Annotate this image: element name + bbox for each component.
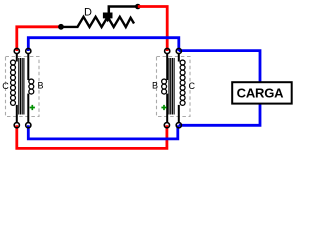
terminal T1 pin 3 [14,123,19,128]
terminal T1 pin 1 [14,48,19,53]
wire red primary top-left [17,27,61,51]
svg-text:C: C [189,81,196,91]
transformer T1 core [19,58,24,115]
transformer T2 winding B lead top [166,53,168,80]
wire blue secondary top bus [28,38,179,51]
wire red from wiper node to T2 [138,7,167,52]
node junction dot B [135,4,141,10]
transformer T2 core [169,58,174,115]
svg-text:D: D [84,6,92,18]
transformer T2 winding C lead top [178,53,180,61]
wire red bottom primary return [17,125,167,148]
terminal T1 pin 4 [26,123,31,128]
transformer T1 winding C lead top [16,53,18,61]
transformer T1 polarity plus mark [30,105,35,110]
terminal T2 pin 2 [176,48,181,53]
transformer T2 winding B coil [162,79,167,94]
transformer T2 winding B lead bottom [166,94,168,123]
wire blue to load CARGA top [179,51,260,82]
transformer T1 winding B lead bottom [27,94,29,123]
transformer T1 boundary dashed box [6,57,40,117]
svg-text:CARGA: CARGA [237,85,284,100]
transformer T2 winding C coil [180,60,185,105]
wiper lead wire [109,7,138,14]
terminal T2 pin 4 [176,123,181,128]
terminal T2 pin 1 [165,48,170,53]
wire blue bottom secondary bus [28,125,178,139]
svg-text:B: B [37,81,43,91]
terminal T2 pin 3 [164,123,169,128]
node junction dot A [58,24,64,30]
svg-text:B: B [152,81,158,91]
transformer T1 winding C lead bottom [16,105,18,123]
transformer T2 boundary dashed box [157,57,191,117]
terminal T1 pin 2 [26,48,31,53]
transformer T1 winding B coil [29,79,34,94]
svg-text:C: C [2,81,9,91]
wiper arm of potentiometer D [103,13,113,23]
transformer T2 winding C lead bottom [178,105,180,123]
transformer T2 polarity plus mark [161,105,166,110]
wire blue load CARGA bottom return [179,104,260,125]
load box CARGA [232,82,292,103]
transformer T1 winding B lead top [27,53,29,80]
resistor body potentiometer D [61,17,133,27]
transformer T1 winding C coil [11,60,16,105]
